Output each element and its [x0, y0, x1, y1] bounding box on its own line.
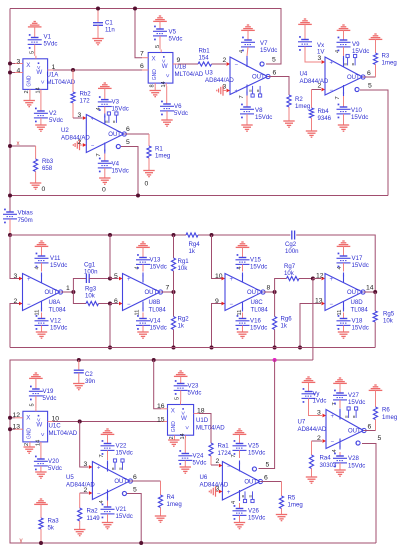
- wire U4 comp pin 5 label: [368, 82, 372, 89]
- svg-text:1meg: 1meg: [155, 153, 170, 160]
- ground under Ra4: [306, 477, 317, 483]
- svg-text:2: 2: [216, 458, 220, 465]
- resistor Ra4 30303: [309, 441, 337, 477]
- svg-text:−: −: [330, 88, 334, 94]
- svg-text:≡: ≡: [118, 467, 123, 470]
- svg-text:≡: ≡: [104, 120, 109, 123]
- svg-text:≡: ≡: [240, 495, 245, 498]
- wire node 12 junction: [311, 272, 325, 280]
- wire U1C pin 13: [8, 423, 23, 431]
- svg-text:≡: ≡: [351, 415, 356, 418]
- svg-text:15Vdc: 15Vdc: [351, 114, 368, 121]
- svg-text:15Vdc: 15Vdc: [352, 325, 369, 332]
- resistor R5 1meg: [279, 482, 302, 515]
- svg-text:X: X: [152, 56, 156, 63]
- svg-text:−: −: [97, 491, 101, 497]
- svg-text:MLT04/AD: MLT04/AD: [47, 79, 76, 86]
- svg-text:≡: ≡: [248, 89, 253, 92]
- wire node to U5 pin 3: [80, 422, 93, 469]
- svg-text:U8D: U8D: [351, 299, 364, 306]
- svg-text:0: 0: [145, 180, 149, 187]
- voltage source V17 15Vdc: [337, 241, 369, 272]
- svg-text:5: 5: [378, 435, 382, 442]
- svg-text:Rb2: Rb2: [80, 91, 92, 98]
- svg-text:2: 2: [14, 298, 18, 305]
- svg-text:15Vdc: 15Vdc: [255, 114, 272, 121]
- svg-text:5: 5: [368, 82, 372, 89]
- svg-text:U2: U2: [61, 127, 69, 134]
- svg-text:≡: ≡: [255, 89, 260, 92]
- wire Rb1 to U3 pin 2: [212, 57, 231, 66]
- svg-text:Rg7: Rg7: [284, 263, 296, 270]
- voltage source V16 15Vdc: [236, 313, 268, 339]
- wire to U8B pin 5: [110, 273, 123, 281]
- svg-text:4: 4: [239, 50, 245, 53]
- svg-text:TL084: TL084: [149, 307, 167, 314]
- svg-text:V11: V11: [50, 255, 61, 262]
- svg-text:2: 2: [317, 435, 321, 442]
- wire middle top rail: [10, 233, 375, 292]
- ground at U2 pin 2: [73, 139, 86, 150]
- op-amp U8C TL084: [225, 266, 268, 315]
- svg-text:+: +: [331, 414, 335, 420]
- voltage source V13 15Vdc: [136, 242, 167, 272]
- resistor Ra2 1149: [78, 493, 101, 530]
- voltage source V27 15Vdc: [333, 378, 365, 408]
- svg-text:U8C: U8C: [251, 299, 264, 306]
- svg-text:OUT: OUT: [247, 290, 260, 296]
- voltage source V25 15Vdc: [233, 429, 266, 458]
- svg-text:X: X: [171, 408, 175, 415]
- svg-text:6: 6: [140, 63, 144, 70]
- op-amp U1D MLT04/AD box: [168, 397, 226, 440]
- svg-text:1meg: 1meg: [288, 502, 303, 509]
- wire rail down to U8C pin 10: [212, 235, 226, 280]
- svg-text:10k: 10k: [85, 293, 96, 300]
- op-amp U8A TL084: [23, 266, 67, 315]
- svg-text:5: 5: [114, 273, 118, 280]
- svg-text:10k: 10k: [383, 318, 394, 325]
- wire U3 OUT to R2: [268, 69, 289, 95]
- ground under R5: [276, 515, 287, 521]
- svg-text:15Vdc: 15Vdc: [50, 325, 67, 332]
- svg-text:14: 14: [366, 284, 374, 291]
- resistor Rb2 172: [71, 70, 91, 118]
- node x label: [17, 140, 20, 147]
- svg-text:−: −: [230, 302, 234, 308]
- svg-text:15Vdc: 15Vdc: [260, 47, 277, 54]
- wire U1B pin 7 from top border: [133, 7, 148, 58]
- svg-text:R5: R5: [288, 495, 296, 502]
- svg-text:Vbias: Vbias: [18, 210, 33, 217]
- svg-text:1meg: 1meg: [382, 414, 397, 421]
- resistor Rg6 1k: [273, 292, 293, 350]
- svg-text:10k: 10k: [178, 265, 189, 272]
- svg-text:4: 4: [35, 266, 41, 269]
- svg-text:15Vdc: 15Vdc: [348, 399, 365, 406]
- wire U4 OUT to R3: [363, 70, 376, 77]
- svg-text:U1C: U1C: [49, 423, 62, 430]
- svg-text:X: X: [26, 414, 30, 421]
- svg-text:3: 3: [17, 58, 21, 65]
- wire U2 pin 5 to bottom rail: [8, 139, 140, 198]
- svg-text:1meg: 1meg: [382, 60, 397, 67]
- svg-text:≡: ≡: [110, 467, 115, 470]
- svg-text:W: W: [162, 63, 168, 70]
- wire U1A pin 4: [8, 67, 23, 74]
- svg-text:Ra4: Ra4: [320, 455, 332, 462]
- capacitor Cg2 100n: [285, 231, 299, 256]
- svg-text:14: 14: [161, 81, 167, 87]
- resistor Rg1 10k: [171, 235, 189, 292]
- svg-text:Cg1: Cg1: [84, 262, 96, 269]
- svg-text:C1: C1: [105, 20, 113, 27]
- svg-text:5Vdc: 5Vdc: [48, 465, 62, 472]
- svg-text:U5: U5: [66, 474, 74, 481]
- svg-text:+: +: [97, 465, 101, 471]
- svg-text:V21: V21: [116, 506, 127, 513]
- voltage source V12 15Vdc: [35, 313, 68, 339]
- svg-text:Cg2: Cg2: [285, 241, 297, 248]
- op-amp U4 AD844/AD: [300, 50, 366, 100]
- svg-text:1meg: 1meg: [295, 103, 310, 110]
- svg-text:V18: V18: [352, 318, 363, 325]
- ground under C1: [92, 39, 103, 45]
- svg-text:GND: GND: [27, 428, 33, 440]
- svg-text:V25: V25: [248, 443, 259, 450]
- wire U8B OUT to node 7: [161, 284, 176, 294]
- svg-text:AD844/AD: AD844/AD: [205, 77, 234, 84]
- wire U1C pin 10 to U1D pin 15: [48, 415, 168, 423]
- voltage source V28 15Vdc: [333, 452, 365, 476]
- svg-text:1: 1: [52, 64, 56, 71]
- svg-text:100n: 100n: [285, 248, 299, 255]
- svg-text:0: 0: [42, 186, 46, 193]
- svg-text:6: 6: [368, 423, 372, 430]
- resistor Rg5 10k: [373, 292, 395, 348]
- svg-text:≡: ≡: [350, 63, 355, 66]
- svg-text:≡: ≡: [112, 120, 117, 123]
- voltage source V5 5Vdc: [153, 16, 182, 50]
- capacitor C2 39n: [74, 360, 95, 385]
- resistor Rg7 10k: [275, 263, 313, 292]
- svg-text:6: 6: [133, 474, 137, 481]
- voltage source V15 15Vdc: [236, 242, 268, 272]
- svg-text:Rb3: Rb3: [42, 158, 54, 165]
- resistor Ra1 1724: [209, 443, 232, 465]
- svg-text:C: C: [260, 62, 264, 68]
- svg-text:U4: U4: [300, 71, 308, 78]
- svg-text:5: 5: [266, 461, 270, 468]
- svg-text:OUT: OUT: [348, 429, 361, 435]
- svg-text:5: 5: [133, 486, 137, 493]
- svg-text:6: 6: [367, 70, 371, 77]
- node y label: [20, 537, 24, 544]
- ground under U1C pin 2: [24, 445, 35, 453]
- svg-text:10k: 10k: [284, 270, 295, 277]
- svg-text:R6: R6: [382, 407, 390, 414]
- svg-text:V20: V20: [48, 458, 59, 465]
- svg-text:C2: C2: [85, 371, 93, 378]
- svg-text:V24: V24: [193, 453, 204, 460]
- voltage source V1 5Vdc: [28, 22, 58, 56]
- svg-text:6: 6: [126, 126, 130, 133]
- svg-text:154: 154: [199, 55, 210, 62]
- svg-text:OUT: OUT: [244, 480, 257, 486]
- svg-text:13: 13: [315, 297, 323, 304]
- svg-text:R1: R1: [155, 146, 163, 153]
- voltage source V11 15Vdc: [35, 241, 68, 272]
- svg-text:5: 5: [30, 403, 36, 406]
- svg-text:3: 3: [317, 409, 321, 416]
- op-amp U5 AD844/AD: [66, 454, 132, 503]
- wire middle bottom rail: [10, 347, 375, 349]
- svg-text:5Vdc: 5Vdc: [193, 460, 207, 467]
- voltage source V9 15Vdc: [337, 25, 370, 56]
- svg-text:OUT: OUT: [108, 132, 121, 138]
- svg-text:15Vdc: 15Vdc: [112, 168, 129, 175]
- svg-text:V2: V2: [49, 110, 57, 117]
- svg-text:Rg3: Rg3: [85, 286, 97, 293]
- svg-text:5k: 5k: [48, 525, 55, 532]
- op-amp U8B TL084: [123, 266, 167, 315]
- wire node x to Rb3: [8, 144, 36, 148]
- svg-text:2: 2: [78, 139, 82, 146]
- wire U2 OUT to R1: [125, 126, 150, 134]
- svg-text:−: −: [330, 302, 334, 308]
- svg-text:1meg: 1meg: [167, 501, 182, 508]
- wire Rb4 to U4 pin 2: [312, 82, 326, 91]
- svg-text:V28: V28: [348, 455, 359, 462]
- voltage source V24 5Vdc: [178, 438, 206, 473]
- svg-text:4: 4: [99, 500, 105, 503]
- svg-text:V4: V4: [112, 161, 120, 168]
- wire U8C pin 9 from rail: [210, 298, 226, 350]
- op-amp U3 AD844/AD: [205, 50, 270, 99]
- svg-text:GND: GND: [27, 75, 33, 87]
- ground under U1D left pin: [168, 438, 179, 446]
- svg-text:12: 12: [13, 412, 21, 419]
- svg-text:18: 18: [197, 407, 205, 414]
- svg-text:C: C: [356, 441, 360, 447]
- ground under R4: [155, 516, 166, 522]
- svg-text:AD844/AD: AD844/AD: [200, 482, 229, 489]
- svg-text:1k: 1k: [178, 323, 185, 330]
- svg-text:750m: 750m: [18, 217, 33, 224]
- wire U8D pin 13: [298, 297, 325, 349]
- svg-text:+: +: [230, 277, 234, 283]
- svg-text:V15: V15: [250, 257, 261, 264]
- svg-text:1Vdc: 1Vdc: [313, 398, 327, 405]
- svg-text:GND: GND: [171, 421, 177, 433]
- svg-text:15Vdc: 15Vdc: [150, 264, 167, 271]
- svg-text:R4: R4: [167, 494, 175, 501]
- svg-text:7: 7: [166, 284, 170, 291]
- svg-text:>: >: [38, 433, 44, 437]
- resistor Rg2 1k: [171, 292, 189, 350]
- svg-text:1724: 1724: [218, 450, 232, 457]
- svg-text:15Vdc: 15Vdc: [250, 264, 267, 271]
- ground under Ra2: [74, 530, 85, 536]
- op-amp U1C MLT04/AD box: [23, 403, 78, 446]
- svg-text:5Vdc: 5Vdc: [44, 41, 58, 48]
- svg-text:5: 5: [272, 56, 276, 63]
- voltage source V4 15Vdc: [98, 154, 129, 194]
- svg-text:Rg2: Rg2: [178, 316, 190, 323]
- voltage source V19 5Vdc: [29, 373, 56, 408]
- voltage source V10 15Vdc: [337, 96, 369, 131]
- svg-text:Rg4: Rg4: [189, 241, 201, 248]
- svg-text:2: 2: [223, 57, 227, 64]
- svg-text:−: −: [331, 439, 335, 445]
- svg-text:15Vdc: 15Vdc: [150, 325, 167, 332]
- svg-text:9: 9: [215, 298, 219, 305]
- capacitor C1 11n: [93, 7, 115, 39]
- svg-text:MLT04/AD: MLT04/AD: [49, 430, 78, 437]
- svg-text:2: 2: [84, 487, 88, 494]
- junction bottom net: [273, 358, 277, 362]
- svg-text:15Vdc: 15Vdc: [112, 106, 129, 113]
- wire U7 OUT to R6: [364, 423, 376, 430]
- svg-text:≡: ≡: [248, 495, 253, 498]
- svg-text:V7: V7: [260, 40, 268, 47]
- svg-text:OUT: OUT: [45, 290, 58, 296]
- svg-text:TL084: TL084: [351, 307, 369, 314]
- svg-text:V13: V13: [150, 257, 161, 264]
- svg-text:5Vdc: 5Vdc: [188, 390, 202, 397]
- svg-text:V16: V16: [250, 318, 261, 325]
- wire Cg1 node up to rail: [109, 235, 111, 279]
- svg-text:U8B: U8B: [149, 299, 161, 306]
- svg-text:AD844/AD: AD844/AD: [300, 78, 329, 85]
- svg-text:2: 2: [318, 82, 322, 89]
- svg-text:C: C: [116, 145, 120, 151]
- svg-text:7: 7: [335, 96, 341, 99]
- voltage source V23 5Vdc: [174, 371, 202, 402]
- svg-text:MLT04/AD: MLT04/AD: [175, 71, 204, 78]
- svg-text:TL084: TL084: [251, 307, 269, 314]
- wire to U8B pin 6: [110, 298, 123, 306]
- wire U8D OUT node 14: [364, 284, 378, 294]
- svg-text:1k: 1k: [281, 323, 288, 330]
- svg-text:AD844/AD: AD844/AD: [61, 135, 90, 142]
- wire U8A pin 2 from below: [10, 298, 23, 348]
- svg-text:3: 3: [216, 485, 220, 492]
- svg-text:100n: 100n: [84, 269, 98, 276]
- resistor Rb3 658: [34, 146, 54, 183]
- resistor Rb1 154: [198, 48, 212, 66]
- svg-text:5Vdc: 5Vdc: [43, 395, 57, 402]
- wire U5 OUT to R4: [131, 474, 161, 481]
- svg-text:10: 10: [52, 415, 60, 422]
- wire U7 comp pin 5 to right border: [362, 435, 382, 543]
- svg-text:15Vdc: 15Vdc: [348, 463, 365, 470]
- ground under Rb4: [306, 131, 317, 137]
- svg-text:V1: V1: [44, 34, 52, 41]
- wire Ra1 to U6 pin 2: [211, 458, 222, 468]
- svg-text:3: 3: [84, 461, 88, 468]
- wire U5 comp pin 5 to bottom rail: [127, 486, 143, 545]
- svg-text:8: 8: [150, 84, 156, 87]
- resistor R4 1meg: [158, 481, 181, 516]
- voltage source V8 15Vdc: [240, 96, 272, 132]
- svg-text:TL084: TL084: [49, 307, 67, 314]
- svg-text:3: 3: [78, 112, 82, 119]
- svg-text:>: >: [164, 74, 170, 78]
- svg-text:X: X: [26, 62, 30, 69]
- svg-text:7: 7: [231, 454, 237, 457]
- ground at U3 pin 3: [217, 83, 230, 95]
- svg-text:15Vdc: 15Vdc: [352, 48, 369, 55]
- svg-text:15Vdc: 15Vdc: [352, 262, 369, 269]
- svg-text:−: −: [235, 62, 239, 68]
- svg-text:4: 4: [332, 449, 338, 452]
- resistor R3 1meg: [369, 34, 397, 77]
- svg-text:8: 8: [267, 284, 271, 291]
- svg-text:Vy: Vy: [313, 391, 321, 398]
- wire U3 comp pin 5: [266, 56, 281, 64]
- svg-text:V26: V26: [248, 508, 259, 515]
- wire U1A pin 1 to node: [48, 64, 135, 72]
- wire U6 comp pin 5 up to bottom net: [259, 360, 275, 469]
- ground under U1A pin 2: [24, 92, 35, 107]
- voltage source V21 15Vdc: [101, 501, 133, 529]
- op-amp U2 AD844/AD: [61, 107, 126, 156]
- svg-text:OUT: OUT: [114, 479, 127, 485]
- voltage source V20 5Vdc: [34, 445, 62, 478]
- svg-text:AD844/AD: AD844/AD: [66, 482, 95, 489]
- svg-text:+: +: [330, 277, 334, 283]
- svg-text:15Vdc: 15Vdc: [250, 325, 267, 332]
- svg-text:5Vdc: 5Vdc: [49, 117, 63, 124]
- svg-text:OUT: OUT: [252, 75, 265, 81]
- wire bottom net top line: [10, 358, 376, 543]
- wire Ra4 to U7 pin 2: [312, 435, 327, 443]
- svg-text:5Vdc: 5Vdc: [169, 36, 183, 43]
- ground at U6 pin 3: [209, 485, 222, 496]
- voltage source V3 15Vdc: [98, 83, 129, 114]
- svg-text:7: 7: [140, 50, 144, 57]
- svg-text:5Vdc: 5Vdc: [174, 110, 188, 117]
- svg-text:2: 2: [24, 90, 30, 93]
- svg-text:>: >: [38, 80, 44, 84]
- svg-text:V5: V5: [169, 29, 177, 36]
- ground under C2: [73, 384, 84, 390]
- svg-text:C: C: [122, 492, 126, 498]
- svg-text:11n: 11n: [105, 27, 115, 34]
- ground under U1B pin 8: [150, 86, 161, 97]
- svg-text:V3: V3: [112, 99, 120, 106]
- svg-text:15Vdc: 15Vdc: [248, 515, 265, 522]
- voltage source V26 15Vdc: [233, 503, 266, 529]
- svg-text:3: 3: [318, 55, 322, 62]
- wire left border upper: [9, 9, 11, 213]
- svg-text:C: C: [252, 467, 256, 473]
- svg-text:U7: U7: [298, 419, 306, 426]
- voltage source V2 5Vdc: [34, 92, 63, 131]
- svg-text:4: 4: [231, 501, 237, 504]
- svg-text:−: −: [27, 302, 31, 308]
- wire left border middle to U8A pin 3: [10, 235, 23, 280]
- voltage source V22 15Vdc: [101, 429, 133, 460]
- svg-text:W: W: [36, 69, 42, 76]
- svg-text:V6: V6: [174, 103, 182, 110]
- svg-text:R3: R3: [382, 53, 390, 60]
- wire U1D pin 18 to Ra1: [194, 407, 211, 443]
- svg-text:U1A: U1A: [47, 72, 60, 79]
- svg-text:3: 3: [14, 273, 18, 280]
- ground under R2: [283, 121, 294, 127]
